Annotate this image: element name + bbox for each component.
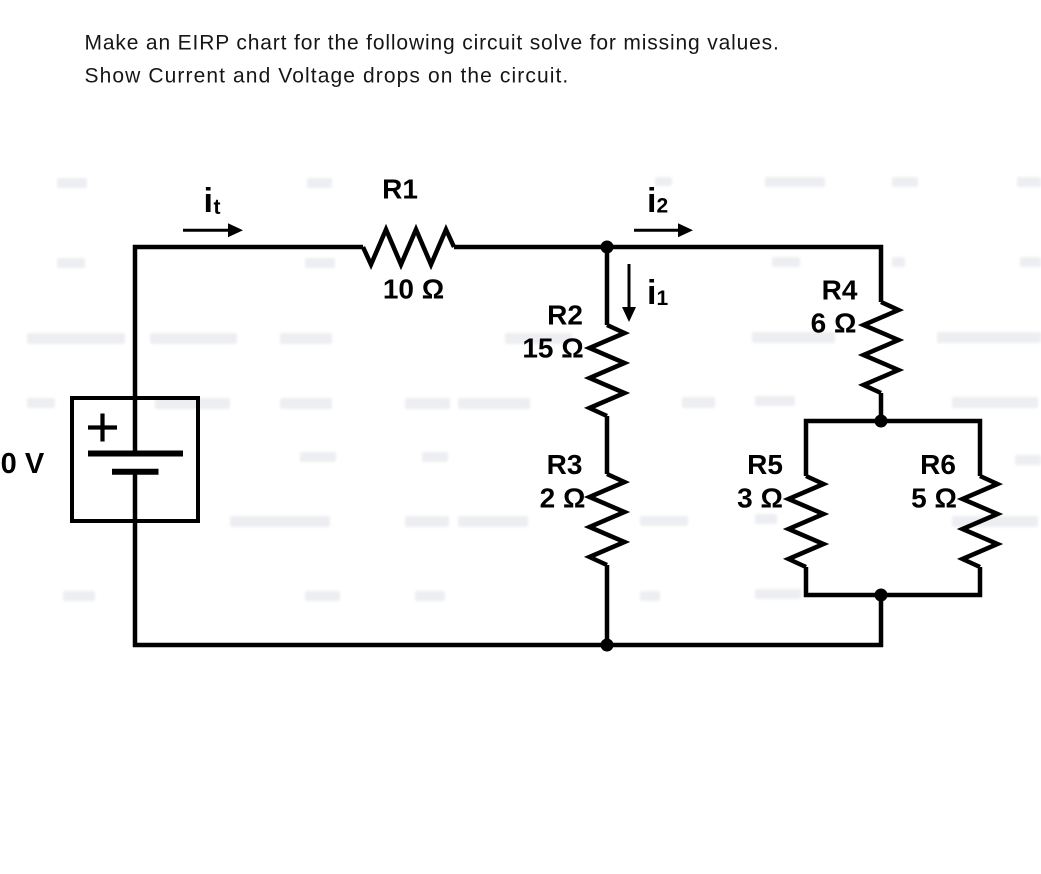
wire top-right: R1 to right branch down to R4 xyxy=(454,247,881,302)
resistor R3 xyxy=(590,474,625,565)
svg-text:R3: R3 xyxy=(547,449,583,480)
svg-text:R2: R2 xyxy=(547,300,583,331)
svg-text:R4: R4 xyxy=(822,275,858,306)
wire: parallel block top U xyxy=(806,421,980,476)
battery V1 plus sign xyxy=(88,414,117,442)
svg-text:1: 1 xyxy=(657,287,669,310)
node: R4 to parallel block junction xyxy=(875,415,888,428)
svg-text:2: 2 xyxy=(657,195,669,218)
svg-text:R5: R5 xyxy=(747,449,783,480)
wire top-left: source top to R1 xyxy=(135,247,363,451)
node: top middle junction xyxy=(601,241,614,254)
svg-text:5 Ω: 5 Ω xyxy=(911,483,957,514)
battery V1 box xyxy=(72,398,198,521)
resistor R1 xyxy=(363,230,454,265)
wire: R3 bottom to bottom rail xyxy=(605,565,610,645)
svg-text:R6: R6 xyxy=(920,449,956,480)
svg-text:20 V: 20 V xyxy=(0,448,45,480)
wire: parallel block bottom U xyxy=(806,567,980,595)
current arrow i1 xyxy=(622,264,636,322)
svg-text:t: t xyxy=(214,196,221,219)
resistor R6 xyxy=(963,476,998,567)
current arrow it xyxy=(183,223,243,237)
svg-text:i: i xyxy=(647,274,656,312)
node: parallel block bottom junction xyxy=(875,589,888,602)
resistor R4 xyxy=(864,302,899,393)
svg-text:10 Ω: 10 Ω xyxy=(383,274,444,305)
resistor R5 xyxy=(789,476,824,567)
svg-text:Show Current and Voltage drops: Show Current and Voltage drops on the ci… xyxy=(85,65,570,88)
battery V1 short plate xyxy=(112,469,159,475)
svg-text:15 Ω: 15 Ω xyxy=(522,333,583,364)
svg-text:R1: R1 xyxy=(382,174,418,205)
resistor R2 xyxy=(590,325,625,416)
svg-text:3 Ω: 3 Ω xyxy=(737,483,783,514)
wire: between R2 and R3 xyxy=(605,416,610,474)
wire: middle node down to R2 xyxy=(605,247,610,325)
battery V1 long plate xyxy=(88,451,183,457)
svg-text:i: i xyxy=(647,182,656,220)
wire: R4 bottom to parallel-block top node xyxy=(879,393,884,421)
current arrow i2 xyxy=(634,223,693,237)
wire bottom loop: source bottom, bottom rail, up to parallel block xyxy=(135,473,881,645)
svg-text:2 Ω: 2 Ω xyxy=(540,483,586,514)
node: bottom middle junction xyxy=(601,639,614,652)
svg-text:Make an EIRP chart for the fol: Make an EIRP chart for the following cir… xyxy=(85,32,780,55)
svg-text:i: i xyxy=(204,182,213,220)
svg-text:6 Ω: 6 Ω xyxy=(811,308,857,339)
